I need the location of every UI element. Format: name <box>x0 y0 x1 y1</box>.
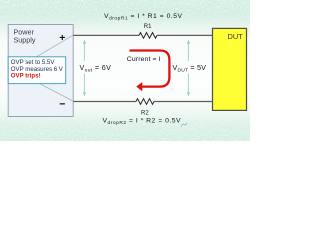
svg-text:DUT: DUT <box>228 32 244 41</box>
measurement arrow Vout <box>83 40 86 97</box>
callout leader to - terminal <box>40 84 74 102</box>
svg-text:Current = I: Current = I <box>127 56 161 63</box>
terminal - <box>60 103 65 104</box>
resistor R2 <box>136 99 154 105</box>
wire top right segment (R1 to DUT) <box>157 34 213 36</box>
OVP callout box <box>8 57 65 84</box>
wire top left segment (PS + to R1) <box>73 34 139 36</box>
resistor R1 <box>139 33 157 39</box>
svg-text:Vout = 6V: Vout = 6V <box>80 63 112 74</box>
measurement arrow VDUT <box>187 40 190 97</box>
wire bottom right segment (R2 to DUT) <box>154 101 213 103</box>
callout leader to + terminal <box>37 35 73 56</box>
power supply PS1 box <box>8 25 73 117</box>
svg-text:Supply: Supply <box>14 35 36 44</box>
DUT box <box>213 28 247 110</box>
annotation squiggle bottom right <box>182 123 188 127</box>
svg-text:R2: R2 <box>141 111 149 117</box>
svg-text:R1: R1 <box>144 24 152 30</box>
current loop arrowhead <box>136 82 142 91</box>
wire bottom left segment (PS - to R2) <box>73 101 136 103</box>
current loop arrow <box>130 51 170 87</box>
svg-text:OVP trips!: OVP trips! <box>11 73 41 80</box>
